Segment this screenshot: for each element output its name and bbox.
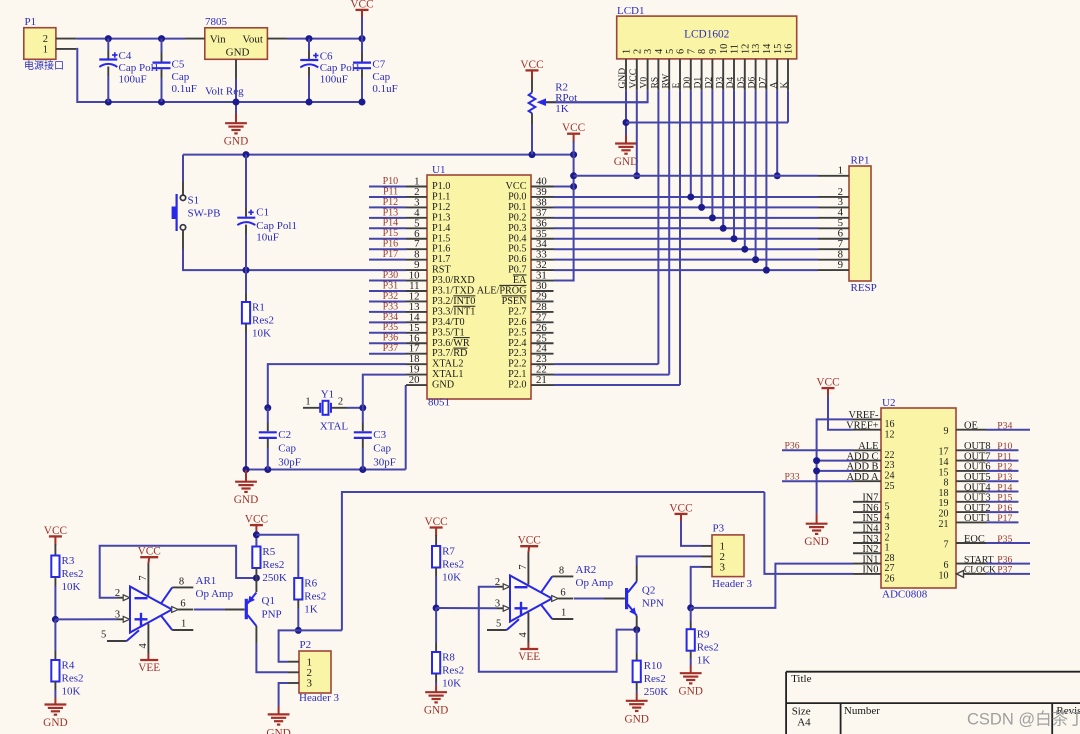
capacitor C4 (Cap Pol1 100uF) xyxy=(107,39,109,51)
wire LCD D7 down to P0.7 xyxy=(765,90,767,270)
wire net P15 at U1 pin 6 xyxy=(369,238,406,240)
wire EA pin31 to VCC net xyxy=(554,187,574,281)
AR2 pin 5 stub xyxy=(487,629,507,631)
wire ADD B to chain xyxy=(817,470,853,472)
wire AR1 output to Q1 base xyxy=(194,609,224,611)
U1 pin 15 stub (P3.5/T1) xyxy=(406,332,427,334)
U1 pin 40 stub (VCC) xyxy=(531,186,554,188)
U1 pin 22 stub (P2.1) xyxy=(531,374,554,376)
svg-text:4: 4 xyxy=(518,632,529,638)
svg-text:P3.3/INT1: P3.3/INT1 xyxy=(432,306,475,317)
svg-text:1K: 1K xyxy=(304,604,318,616)
wire Q1 collector to P2 pin2 xyxy=(256,643,288,672)
AR1 minus sign xyxy=(135,597,148,599)
S1 bottom stub xyxy=(182,230,184,249)
U1 pin 33 stub (P0.6) xyxy=(531,259,554,261)
RP1 pin 8 stub xyxy=(818,259,849,261)
svg-text:Header 3: Header 3 xyxy=(299,692,340,704)
svg-text:SW-PB: SW-PB xyxy=(188,208,221,220)
ground symbol below 7805 xyxy=(235,114,237,124)
7805 GND pin stub xyxy=(235,59,237,79)
svg-text:C7: C7 xyxy=(372,59,385,71)
wire P2.2 (pin23) to LCD RS xyxy=(554,363,659,365)
junction D7/P0.7 xyxy=(763,267,770,274)
svg-text:9: 9 xyxy=(838,259,843,271)
wire AR2 output to Q2 base xyxy=(574,598,604,600)
svg-text:D7: D7 xyxy=(759,77,769,89)
AR2 minus sign xyxy=(515,586,528,588)
junction D4/P0.4 xyxy=(731,235,738,242)
ground symbol below P2 xyxy=(278,707,280,715)
junction R6 at P2/IN0 net xyxy=(295,627,302,634)
svg-text:P33: P33 xyxy=(785,472,800,483)
svg-text:GND: GND xyxy=(43,717,67,729)
wire gnd net to U1 GND pin xyxy=(405,385,407,469)
junction gnd net at R1 xyxy=(243,466,250,473)
svg-text:P1.0: P1.0 xyxy=(432,181,450,192)
U2 left pin 12 (VREF+) xyxy=(853,429,881,431)
U2 right pin 18 (OUT4) xyxy=(956,491,986,493)
svg-text:ADC0808: ADC0808 xyxy=(882,589,928,601)
svg-text:1K: 1K xyxy=(697,655,711,667)
wire VCC node to R6 xyxy=(256,535,298,578)
LCD1 pin 15 stub (A) xyxy=(776,59,778,90)
svg-text:0.1uF: 0.1uF xyxy=(372,83,397,95)
svg-text:R6: R6 xyxy=(304,578,317,590)
wire LCD RW pin5 down to P2.1 xyxy=(668,90,670,374)
U2 left pin 22 (ALE) xyxy=(853,449,881,451)
AR1 pin 8 stub xyxy=(161,587,172,603)
svg-text:P2.6: P2.6 xyxy=(508,317,526,328)
U2 right pin 7 (EOC) xyxy=(956,542,986,544)
capacitor C1 (Cap Pol1 10uF) xyxy=(245,155,247,208)
svg-text:RESP: RESP xyxy=(851,282,877,294)
wire P2 pin1 to R6/IN0 net xyxy=(279,630,342,661)
svg-text:P0.7: P0.7 xyxy=(508,265,526,276)
U1 pin 32 stub (P0.7) xyxy=(531,269,554,271)
svg-text:VCC: VCC xyxy=(506,181,527,192)
svg-text:13: 13 xyxy=(751,44,762,54)
U1 pin 18 stub (XTAL2) xyxy=(406,363,427,365)
U2 left pin 25 (ADD A) xyxy=(853,480,881,482)
crystal Y1 XTAL xyxy=(303,407,320,409)
svg-text:A: A xyxy=(769,82,779,89)
wire/net label P15 at OUT3 xyxy=(986,501,1019,503)
resistor R8 (Res2 10K) xyxy=(435,608,437,643)
wire LCD E pin6 down to P2.0 xyxy=(679,90,681,385)
svg-text:P33: P33 xyxy=(383,301,399,312)
U1 pin 16 stub (P3.6/WR) xyxy=(406,342,427,344)
svg-text:Number: Number xyxy=(844,705,880,717)
svg-text:VCC: VCC xyxy=(562,122,585,134)
junction VCC rail at U1 VCC stem xyxy=(570,151,577,158)
AR1 pin 4 / VEE xyxy=(147,624,149,654)
svg-text:Q1: Q1 xyxy=(262,595,275,607)
wire LCD VCC pin2 down to VCC rail xyxy=(636,90,638,176)
capacitor C2 (Cap 30pF) xyxy=(267,408,269,423)
wire/net label P16 at OUT2 xyxy=(986,511,1019,513)
svg-text:Cap: Cap xyxy=(278,442,296,454)
svg-text:GND: GND xyxy=(224,136,248,148)
svg-text:16: 16 xyxy=(784,44,795,54)
RP1 pin 7 stub xyxy=(818,248,849,250)
ground symbol below LCD xyxy=(625,135,627,144)
P3 pin1 stub xyxy=(702,545,713,547)
junction D2/P0.2 xyxy=(709,214,716,221)
junction gnd net at C2 xyxy=(264,466,271,473)
P1 pin 1 stub xyxy=(56,48,76,50)
LCD1 pin 8 stub (D1) xyxy=(701,59,703,90)
svg-text:VCC: VCC xyxy=(138,546,161,558)
svg-text:P0.5: P0.5 xyxy=(508,244,526,255)
svg-text:Res2: Res2 xyxy=(262,559,284,571)
svg-text:14: 14 xyxy=(762,44,773,54)
svg-text:VEE: VEE xyxy=(518,651,540,663)
svg-text:P1.5: P1.5 xyxy=(432,233,450,244)
wire net P14 at U1 pin 5 xyxy=(369,227,406,229)
wire IN1 net to ADC xyxy=(691,564,853,608)
svg-text:D6: D6 xyxy=(748,77,758,89)
switch S1 SW-PB xyxy=(182,155,184,181)
LCD1 pin 1 stub (GND) xyxy=(625,59,627,90)
U1 pin 38 stub (P0.1) xyxy=(531,206,554,208)
svg-text:CSDN @白茶丁: CSDN @白茶丁 xyxy=(967,710,1080,729)
wire P0.7 (pin 32) to RP1 pin 9 xyxy=(554,269,819,271)
svg-text:7: 7 xyxy=(138,576,149,581)
wire net P31 at U1 pin 11 xyxy=(369,290,406,292)
svg-text:VCC: VCC xyxy=(245,514,268,526)
svg-text:D4: D4 xyxy=(726,77,736,89)
wire AR1 pin2 feedback loop xyxy=(100,546,257,598)
svg-text:10K: 10K xyxy=(252,328,271,340)
svg-text:4: 4 xyxy=(138,643,149,649)
U1 pin 24 stub (P2.3) xyxy=(531,353,554,355)
svg-text:RST: RST xyxy=(432,265,451,276)
svg-text:P34: P34 xyxy=(997,421,1012,432)
resistor R7 (Res2 10K) xyxy=(435,535,437,546)
LCD1 pin 2 stub (VCC) xyxy=(636,59,638,90)
svg-text:D5: D5 xyxy=(737,77,747,89)
svg-text:Res2: Res2 xyxy=(304,591,326,603)
U1 pin 11 stub (P3.1/TXD) xyxy=(406,290,427,292)
svg-text:PNP: PNP xyxy=(262,609,282,621)
potentiometer R2 RPot 1K xyxy=(531,79,533,93)
RP1 pin 2 stub xyxy=(818,196,849,198)
svg-text:NPN: NPN xyxy=(642,598,664,610)
svg-text:6: 6 xyxy=(180,599,185,610)
P2 pin1 stub xyxy=(288,661,299,663)
svg-text:P3.5/T1: P3.5/T1 xyxy=(432,327,465,338)
svg-text:12: 12 xyxy=(740,44,751,54)
svg-text:P0.3: P0.3 xyxy=(508,223,526,234)
U1 pin 10 stub (P3.0/RXD) xyxy=(406,280,427,282)
svg-text:P35: P35 xyxy=(383,322,399,333)
svg-text:10: 10 xyxy=(719,44,730,54)
junction RST at C1/R1 xyxy=(243,267,250,274)
junction ADD C xyxy=(813,457,820,464)
wire net P33 at U1 pin 13 xyxy=(369,311,406,313)
wire IN0 net vertical xyxy=(342,492,765,630)
wire Q2 collector to P3 pin2 xyxy=(637,556,702,565)
svg-text:2: 2 xyxy=(632,49,643,54)
svg-text:GND: GND xyxy=(432,380,454,391)
LCD1 pin 14 stub (D7) xyxy=(765,59,767,90)
wire net P34 at U1 pin 14 xyxy=(369,321,406,323)
wire P0.1 (pin 38) to RP1 pin 3 xyxy=(554,206,819,208)
svg-text:P3.6/WR: P3.6/WR xyxy=(432,338,470,349)
svg-text:S1: S1 xyxy=(188,195,200,207)
svg-text:PSEN: PSEN xyxy=(502,296,528,307)
junction at C7 top / VCC xyxy=(359,35,366,42)
junction VCC rail at R2 xyxy=(529,151,536,158)
svg-text:R7: R7 xyxy=(442,546,455,558)
svg-text:P30: P30 xyxy=(383,270,399,281)
svg-text:Volt Reg: Volt Reg xyxy=(205,86,244,98)
U2 right pin 15 (OUT6) xyxy=(956,470,986,472)
svg-text:P1: P1 xyxy=(25,16,37,28)
U1 pin 37 stub (P0.2) xyxy=(531,217,554,219)
svg-text:RP1: RP1 xyxy=(851,155,870,167)
RP1 pin 9 stub xyxy=(818,269,849,271)
wire LCD D0 down to P0.0 xyxy=(690,90,692,197)
U1 pin 34 stub (P0.5) xyxy=(531,248,554,250)
svg-text:100uF: 100uF xyxy=(320,74,348,86)
svg-text:20: 20 xyxy=(409,374,420,386)
svg-text:LCD1602: LCD1602 xyxy=(684,29,730,41)
svg-text:P0.4: P0.4 xyxy=(508,233,526,244)
svg-text:ALE/PROG: ALE/PROG xyxy=(477,286,527,297)
svg-text:1: 1 xyxy=(838,165,843,177)
wire P0.4 (pin 35) to RP1 pin 6 xyxy=(554,238,819,240)
svg-text:R10: R10 xyxy=(644,660,663,672)
junction VCC rail at C1 xyxy=(243,151,250,158)
U1 pin 1 stub (P1.0) xyxy=(406,186,427,188)
wire U1 VCC pin40 to VCC stem xyxy=(554,186,574,188)
U2 left pin 27 (IN1) xyxy=(853,563,881,565)
svg-text:Cap: Cap xyxy=(172,71,190,83)
junction R3/R4 divider xyxy=(52,616,59,623)
AR1 pin 7 / VCC xyxy=(147,564,149,596)
svg-text:V0: V0 xyxy=(640,77,650,89)
junction LCD A at rail xyxy=(774,172,781,179)
svg-text:P11: P11 xyxy=(383,186,398,197)
wire P0.5 (pin 34) to RP1 pin 7 xyxy=(554,248,819,250)
U1 pin 23 stub (P2.2) xyxy=(531,363,554,365)
svg-text:P2.7: P2.7 xyxy=(508,306,526,317)
wire net P32 at U1 pin 12 xyxy=(369,300,406,302)
junction D0/P0.0 xyxy=(687,193,694,200)
svg-text:6: 6 xyxy=(560,588,565,599)
svg-text:C4: C4 xyxy=(119,50,132,62)
wire VCC stem to rail/pin40 xyxy=(573,155,575,187)
svg-text:10K: 10K xyxy=(442,678,461,690)
svg-text:P35: P35 xyxy=(997,534,1012,545)
wire LCD A pin15 down to VCC rail xyxy=(776,90,778,176)
svg-text:K: K xyxy=(780,82,790,89)
LCD1 pin 9 stub (D2) xyxy=(711,59,713,90)
svg-text:1K: 1K xyxy=(555,103,569,115)
junction at C6 top xyxy=(306,35,313,42)
RP1 pin 3 stub xyxy=(818,206,849,208)
svg-text:GND: GND xyxy=(618,68,628,89)
AR2 pin 1 stub xyxy=(541,605,552,619)
U2 CLOCK pin input arrow xyxy=(957,571,964,578)
wire ALE net P36 xyxy=(782,449,853,451)
U2 left pin 5 (IN7) xyxy=(853,501,881,503)
junction VCC stem at RP1 rail xyxy=(570,172,577,179)
svg-text:P1.2: P1.2 xyxy=(432,202,450,213)
svg-text:D1: D1 xyxy=(694,77,704,89)
svg-text:R9: R9 xyxy=(697,629,710,641)
wire net P17 at U1 pin 8 xyxy=(369,259,406,261)
U2 left pin 26 (IN0) xyxy=(853,573,881,575)
wire P1 pin1 to bottom rail xyxy=(76,49,108,102)
svg-text:Res2: Res2 xyxy=(697,642,719,654)
svg-text:11: 11 xyxy=(730,44,741,54)
wire/net label P34 at OE xyxy=(986,429,1030,431)
svg-text:1: 1 xyxy=(561,608,566,619)
wire 7805 Vout to VCC/C6/C7 xyxy=(287,38,362,40)
svg-text:P36: P36 xyxy=(785,441,800,452)
svg-text:D0: D0 xyxy=(683,77,693,89)
U1 pin 3 stub (P1.2) xyxy=(406,206,427,208)
svg-text:250K: 250K xyxy=(644,686,669,698)
svg-text:XTAL1: XTAL1 xyxy=(432,369,463,380)
U1 pin 8 stub (P1.7) xyxy=(406,259,427,261)
svg-text:0.1uF: 0.1uF xyxy=(172,83,197,95)
P3 pin3 stub xyxy=(702,566,713,568)
wire LCD D5 down to P0.5 xyxy=(744,90,746,249)
svg-text:P32: P32 xyxy=(383,291,399,302)
junction D1/P0.1 xyxy=(698,204,705,211)
resistor R10 (Res2 250K) xyxy=(636,653,638,661)
header P3 (Header 3) xyxy=(712,535,744,577)
svg-text:R4: R4 xyxy=(62,660,75,672)
svg-text:Vout: Vout xyxy=(242,33,263,45)
svg-text:EOC: EOC xyxy=(964,534,985,545)
svg-text:5: 5 xyxy=(665,49,676,54)
U1 pin 29 stub (PSEN) xyxy=(531,300,554,302)
svg-text:R8: R8 xyxy=(442,652,455,664)
junction bottom rail at C7 xyxy=(359,99,366,106)
svg-text:7: 7 xyxy=(944,539,949,550)
svg-text:VCC: VCC xyxy=(518,535,541,547)
capacitor C7 (Cap 0.1uF) xyxy=(361,39,363,53)
svg-text:8: 8 xyxy=(179,577,184,588)
svg-text:Header 3: Header 3 xyxy=(712,578,753,590)
junction top rail at C5 xyxy=(158,35,165,42)
svg-text:6: 6 xyxy=(676,49,687,54)
junction C3/Y1 node xyxy=(359,404,366,411)
svg-text:电源接口: 电源接口 xyxy=(24,59,64,72)
wire ADD A net P33 xyxy=(782,480,853,482)
AR1 pin 3 (non-inverting input) xyxy=(117,618,125,620)
P2 pin3 stub xyxy=(288,682,299,684)
AR1 pin 5 stub xyxy=(107,640,127,642)
svg-text:P2.3: P2.3 xyxy=(508,348,526,359)
RP1 pin 5 stub xyxy=(818,227,849,229)
wire net P30 at U1 pin 10 xyxy=(369,280,406,282)
AR2 pin 4 / VEE xyxy=(527,613,529,643)
svg-text:R5: R5 xyxy=(262,546,275,558)
junction D5/P0.5 xyxy=(741,246,748,253)
svg-text:Res2: Res2 xyxy=(62,673,84,685)
AR1 pin 1 stub xyxy=(161,616,172,630)
U1 pin 27 stub (P2.6) xyxy=(531,321,554,323)
svg-text:P3.1/TXD: P3.1/TXD xyxy=(432,286,474,297)
ground symbol below ADC chain xyxy=(816,514,818,524)
wire 7805 GND down xyxy=(235,79,237,114)
svg-text:P3.0/RXD: P3.0/RXD xyxy=(432,275,475,286)
wire bottom rail xyxy=(77,101,362,103)
wire LCD D1 down to P0.1 xyxy=(701,90,703,207)
AR1 plus sign xyxy=(135,618,148,620)
U2 right pin 19 (OUT3) xyxy=(956,501,986,503)
svg-text:P1.4: P1.4 xyxy=(432,223,450,234)
junction D3/P0.3 xyxy=(720,225,727,232)
U1 pin 30 stub (ALE/PROG) xyxy=(531,290,554,292)
svg-text:8: 8 xyxy=(697,49,708,54)
wire VCC rail to reset circuit xyxy=(183,154,574,156)
U1 pin 14 stub (P3.4/T0) xyxy=(406,321,427,323)
svg-text:100uF: 100uF xyxy=(119,73,147,85)
P2 pin2 stub xyxy=(288,671,299,673)
LCD1 pin 12 stub (D5) xyxy=(744,59,746,90)
U1 pin 25 stub (P2.4) xyxy=(531,342,554,344)
svg-text:P0.0: P0.0 xyxy=(508,191,526,202)
svg-text:10uF: 10uF xyxy=(256,231,279,243)
svg-text:12: 12 xyxy=(885,429,895,440)
wire LCD D2 down to P0.2 xyxy=(711,90,713,218)
svg-text:P36: P36 xyxy=(383,333,399,344)
wire net P16 at U1 pin 7 xyxy=(369,248,406,250)
svg-text:GND: GND xyxy=(614,156,638,168)
svg-text:Cap: Cap xyxy=(373,442,391,454)
wire/net label P12 at OUT6 xyxy=(986,470,1019,472)
transistor Q2 NPN xyxy=(625,588,628,609)
wire P2 pin3 to ground xyxy=(279,683,288,707)
svg-text:P37: P37 xyxy=(997,565,1012,576)
junction R7/R8 divider xyxy=(433,605,440,612)
LCD1 pin 3 stub (V0) xyxy=(647,59,649,90)
svg-text:Res2: Res2 xyxy=(252,315,274,327)
svg-text:21: 21 xyxy=(536,374,547,386)
U2 right pin 9 (OE) xyxy=(956,429,986,431)
AR2 pin 2 (inverting input) xyxy=(497,586,505,588)
wire P0.6 (pin 33) to RP1 pin 8 xyxy=(554,259,819,261)
svg-text:R3: R3 xyxy=(62,555,75,567)
svg-text:1: 1 xyxy=(43,45,48,56)
Q1 base stub xyxy=(224,609,244,611)
svg-text:P1.6: P1.6 xyxy=(432,244,450,255)
wire ADD C to chain xyxy=(817,460,853,462)
U1 pin 5 stub (P1.4) xyxy=(406,227,427,229)
junction VCC/R5/R6 xyxy=(253,531,260,538)
svg-text:P13: P13 xyxy=(383,207,399,218)
svg-text:A4: A4 xyxy=(797,717,811,729)
wire VCC rail to RP1 pin 1 xyxy=(574,175,818,177)
wire/net label P11 at OUT7 xyxy=(986,460,1019,462)
svg-text:Res2: Res2 xyxy=(442,665,464,677)
U2 right pin 17 (OUT8) xyxy=(956,449,986,451)
svg-text:10: 10 xyxy=(939,570,949,581)
P3 pin2 stub xyxy=(702,555,713,557)
wire net P35 at U1 pin 15 xyxy=(369,332,406,334)
svg-text:LCD1: LCD1 xyxy=(617,5,645,17)
AR2 pin 7 / VCC xyxy=(527,553,529,585)
junction gnd net at C3 xyxy=(359,466,366,473)
svg-text:P31: P31 xyxy=(383,280,399,291)
